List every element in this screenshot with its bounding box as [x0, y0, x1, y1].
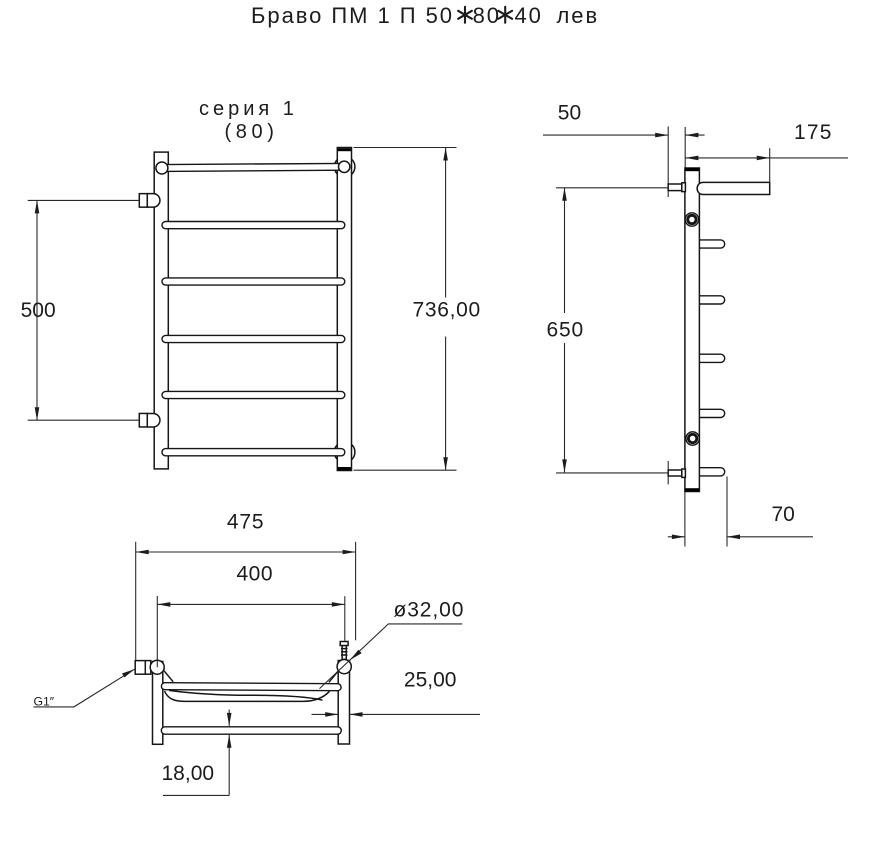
air valve stem — [340, 642, 348, 660]
svg-text:лев: лев — [557, 3, 600, 28]
dimension 400 — [157, 603, 344, 605]
rung stub 1 — [690, 239, 721, 249]
extension line 400 right — [344, 596, 346, 641]
svg-text:серия 1: серия 1 — [199, 98, 298, 120]
rung 3 — [166, 335, 342, 344]
wall bracket upper — [139, 194, 160, 208]
rung 2 — [166, 277, 342, 286]
top-left circle — [156, 162, 168, 174]
svg-text:40: 40 — [515, 3, 543, 28]
svg-text:ø32,00: ø32,00 — [394, 599, 465, 622]
star symbol 1 — [458, 7, 472, 23]
post left edge extension down — [684, 492, 686, 547]
left post (plan) — [153, 662, 163, 745]
rung stub 4 — [690, 409, 721, 419]
svg-text:80: 80 — [473, 3, 501, 28]
right circle fitting — [337, 660, 351, 674]
svg-text:475: 475 — [227, 511, 264, 534]
post left edge extension up — [684, 127, 686, 168]
top-right circle — [339, 161, 350, 172]
towel loop inner bend edge — [169, 690, 323, 700]
dimension 25,00 — [312, 713, 339, 715]
svg-text:25,00: 25,00 — [404, 669, 457, 692]
svg-text:18,00: 18,00 — [162, 762, 215, 785]
svg-text:736,00: 736,00 — [413, 299, 481, 322]
outer circle top-right fitting — [334, 157, 355, 178]
wall extension line bottom — [667, 461, 669, 484]
left post — [154, 152, 168, 469]
right post bottom cap — [338, 467, 351, 470]
right post — [337, 148, 351, 471]
svg-text:400: 400 — [237, 563, 274, 586]
stub end extension down — [726, 477, 728, 547]
extension line 475 left — [135, 542, 137, 660]
right corner bend — [329, 671, 339, 683]
lower double bar — [165, 726, 338, 735]
right post top cap — [338, 148, 351, 151]
side post top cap — [685, 168, 699, 171]
svg-text:175: 175 — [794, 121, 833, 144]
dimension 500 — [28, 200, 140, 420]
top bar to wall — [697, 182, 770, 194]
star symbol 2 — [498, 7, 512, 23]
left bracket box — [135, 661, 151, 675]
title text — [251, 3, 599, 28]
wall bracket lower — [139, 413, 160, 427]
leader ø32,00 — [320, 624, 463, 689]
rung 5 — [166, 448, 342, 457]
dimension 18,00 — [228, 710, 230, 726]
svg-text:650: 650 — [547, 319, 584, 342]
outer circle bottom-right fitting — [334, 442, 355, 463]
rung stub 3 — [690, 353, 721, 363]
top bar — [162, 167, 344, 168]
svg-text:Браво ПМ 1 П 50: Браво ПМ 1 П 50 — [251, 3, 454, 28]
left circle fitting — [150, 660, 164, 674]
side post — [685, 168, 700, 492]
side post bottom cap — [685, 488, 699, 491]
wall extension line — [667, 126, 669, 197]
svg-text:(80): (80) — [225, 121, 279, 143]
fitting ring top — [685, 213, 698, 226]
svg-text:70: 70 — [772, 503, 795, 526]
extension line 400 left (into circle) — [156, 596, 158, 667]
dimension 50 — [543, 134, 705, 136]
wall bracket bottom stud — [668, 469, 685, 477]
dimension 70 — [668, 536, 685, 538]
fitting ring bottom — [686, 432, 699, 445]
wall bracket top stud — [668, 183, 685, 192]
dimension 475 — [136, 551, 356, 553]
rung 1 — [166, 221, 342, 230]
extension line 475 right — [355, 542, 357, 641]
rung stub 5 — [690, 467, 721, 477]
left corner bend — [164, 670, 174, 682]
dimension 175 — [769, 148, 771, 182]
svg-text:500: 500 — [21, 299, 56, 322]
towel loop outer bend edge — [165, 691, 330, 701]
rung 4 — [166, 391, 342, 400]
dimension 650 — [556, 188, 668, 473]
rung stub 2 — [690, 295, 721, 305]
dimension 736,00 — [354, 148, 457, 471]
svg-text:50: 50 — [558, 102, 581, 125]
top towel bar — [165, 686, 338, 687]
right post (plan) — [338, 661, 349, 745]
